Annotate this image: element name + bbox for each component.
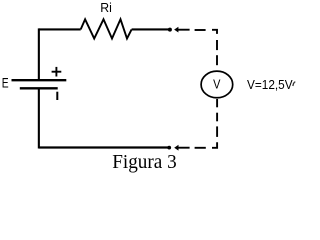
wire left upper	[38, 28, 40, 80]
battery E top plate	[12, 79, 67, 81]
wire left lower	[38, 88, 40, 148]
dashed wire bottom	[195, 147, 206, 149]
resistor Ri	[81, 19, 132, 38]
battery E bottom plate	[20, 87, 58, 89]
svg-text:V: V	[213, 76, 221, 91]
arrow bottom (voltmeter lead)	[174, 145, 178, 151]
node junction bottom	[167, 146, 171, 150]
svg-text:E: E	[2, 76, 9, 91]
wire top-left	[39, 28, 81, 30]
battery minus tick	[56, 92, 58, 100]
wire top-right	[132, 28, 170, 30]
node junction top	[168, 28, 172, 32]
dashed wire right lower	[216, 99, 218, 107]
svg-text:V=12,5V: V=12,5V	[247, 77, 293, 92]
stray tick mark after V=12,5V	[293, 82, 295, 86]
svg-text:Figura 3: Figura 3	[112, 151, 177, 173]
dashed wire top	[195, 29, 206, 31]
wire bottom	[39, 146, 169, 148]
voltmeter V	[201, 71, 233, 98]
battery plus sign	[52, 71, 62, 73]
svg-text:Ri: Ri	[100, 1, 112, 15]
arrow top (voltmeter lead)	[174, 27, 178, 33]
dashed wire right upper	[216, 40, 218, 50]
